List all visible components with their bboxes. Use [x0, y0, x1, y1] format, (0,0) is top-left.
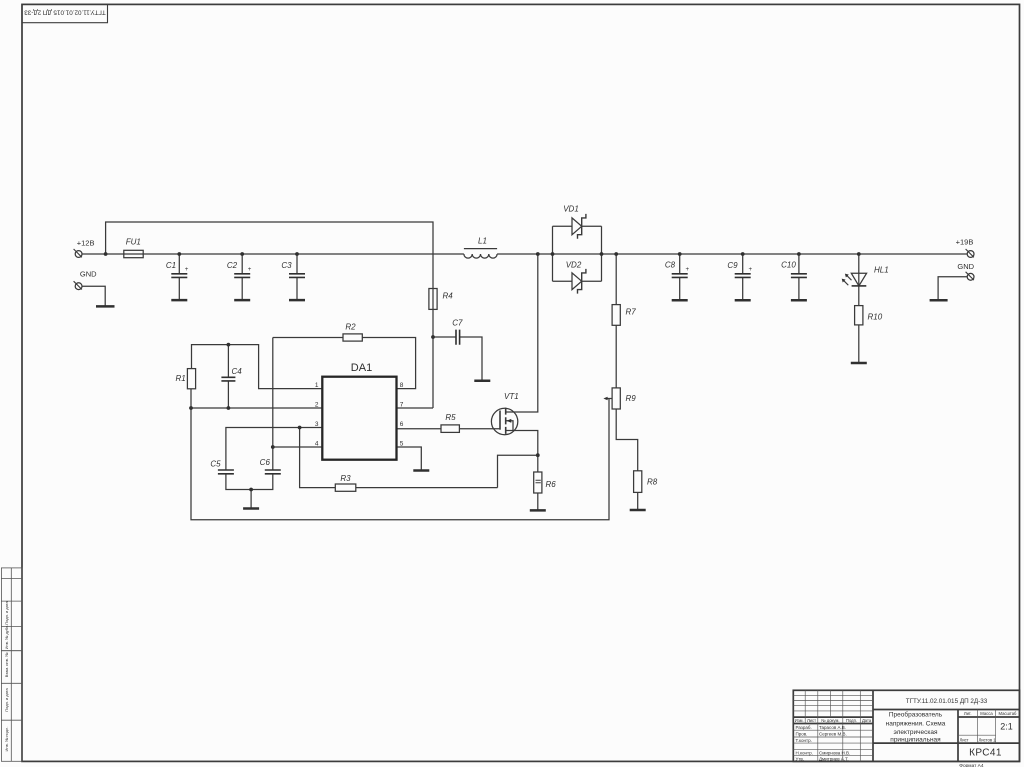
svg-text:Утв.: Утв.: [796, 756, 805, 761]
svg-text:C7: C7: [452, 319, 463, 328]
svg-text:Листов 1: Листов 1: [979, 738, 997, 743]
svg-text:DA1: DA1: [351, 362, 372, 374]
svg-text:C10: C10: [781, 261, 796, 270]
svg-text:Инв. № подл.: Инв. № подл.: [4, 727, 9, 752]
svg-text:Лист: Лист: [960, 738, 969, 743]
svg-text:Разраб.: Разраб.: [796, 725, 812, 730]
svg-text:C4: C4: [232, 367, 243, 376]
svg-text:Подп.: Подп.: [846, 718, 857, 723]
svg-text:C2: C2: [227, 261, 238, 270]
svg-text:Формат А4: Формат А4: [959, 763, 984, 767]
svg-text:Масштаб: Масштаб: [999, 711, 1018, 716]
svg-text:+: +: [686, 266, 690, 273]
svg-text:C3: C3: [281, 261, 292, 270]
svg-text:R10: R10: [868, 313, 883, 322]
svg-text:Подп. и дата: Подп. и дата: [4, 687, 9, 711]
svg-text:HL1: HL1: [874, 265, 889, 274]
svg-text:+: +: [185, 266, 189, 273]
svg-text:C8: C8: [665, 261, 676, 270]
svg-text:R4: R4: [443, 292, 454, 301]
svg-text:5: 5: [400, 440, 404, 447]
svg-text:GND: GND: [80, 270, 97, 279]
svg-text:C9: C9: [727, 261, 738, 270]
svg-text:№ докум.: № докум.: [821, 718, 839, 723]
svg-text:R3: R3: [340, 474, 351, 483]
svg-text:Подп. и дата: Подп. и дата: [4, 600, 9, 624]
svg-text:R1: R1: [176, 374, 186, 383]
svg-text:VD2: VD2: [566, 261, 582, 270]
svg-text:+: +: [749, 266, 753, 273]
svg-text:Преобразователь: Преобразователь: [889, 711, 943, 719]
svg-text:R8: R8: [647, 478, 658, 487]
svg-text:C1: C1: [166, 261, 176, 270]
svg-text:+19В: +19В: [956, 238, 974, 247]
svg-text:Масса: Масса: [980, 711, 993, 716]
svg-text:электрическая: электрическая: [893, 729, 938, 736]
svg-text:VD1: VD1: [563, 205, 579, 214]
svg-text:Изм.: Изм.: [795, 718, 804, 723]
svg-text:принципиальная: принципиальная: [890, 736, 941, 743]
svg-text:C6: C6: [260, 458, 271, 467]
svg-text:6: 6: [400, 421, 404, 428]
svg-text:Дата: Дата: [862, 718, 872, 723]
svg-text:R9: R9: [626, 394, 637, 403]
svg-text:+12В: +12В: [77, 238, 95, 247]
svg-text:КРС41: КРС41: [969, 747, 1002, 758]
svg-text:ТГТУ.11.02.01.015 ДП 2Д-33: ТГТУ.11.02.01.015 ДП 2Д-33: [906, 698, 988, 705]
svg-text:3: 3: [315, 421, 319, 428]
svg-text:ТГТУ.11.02.01.015 ДП 2Д-33: ТГТУ.11.02.01.015 ДП 2Д-33: [24, 9, 106, 16]
svg-text:7: 7: [400, 401, 404, 408]
svg-text:Т.контр.: Т.контр.: [796, 738, 812, 743]
svg-text:Н.контр.: Н.контр.: [796, 750, 813, 755]
svg-text:8: 8: [400, 382, 404, 389]
svg-text:Сергеев М.В.: Сергеев М.В.: [819, 732, 847, 737]
svg-text:Пров.: Пров.: [796, 732, 808, 737]
svg-text:R7: R7: [626, 308, 637, 317]
svg-text:Инв. № дубл.: Инв. № дубл.: [4, 625, 9, 650]
svg-text:VT1: VT1: [504, 392, 519, 401]
svg-text:1: 1: [315, 382, 319, 389]
svg-text:Тарасов А.В.: Тарасов А.В.: [819, 725, 846, 730]
svg-text:GND: GND: [957, 262, 974, 271]
svg-text:Лист: Лист: [807, 718, 816, 723]
svg-text:R5: R5: [445, 413, 456, 422]
svg-text:Смирнова Н.В.: Смирнова Н.В.: [819, 750, 850, 755]
svg-text:Лит.: Лит.: [964, 711, 972, 716]
svg-text:L1: L1: [478, 237, 487, 246]
svg-text:2: 2: [315, 401, 319, 408]
svg-text:FU1: FU1: [126, 237, 141, 246]
svg-text:R6: R6: [546, 480, 557, 489]
svg-text:R2: R2: [345, 323, 356, 332]
svg-text:Взам. инв. №: Взам. инв. №: [4, 653, 9, 678]
svg-text:2:1: 2:1: [1000, 722, 1013, 732]
svg-text:+: +: [248, 266, 252, 273]
svg-text:4: 4: [315, 440, 319, 447]
svg-text:C5: C5: [210, 460, 221, 469]
svg-text:напряжения. Схема: напряжения. Схема: [886, 720, 946, 727]
svg-text:Дмитриев А.Т.: Дмитриев А.Т.: [819, 756, 849, 761]
